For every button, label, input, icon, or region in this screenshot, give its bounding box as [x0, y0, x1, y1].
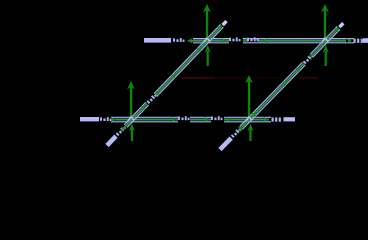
spin arrow S1 at node A: [203, 4, 211, 39]
arrowheads: [187, 38, 193, 43]
wire: top chain double line: [144, 37, 368, 43]
node D (bottom-right site): [245, 116, 253, 121]
spin arrow S2 at node B: [321, 4, 329, 39]
short arrow under node D: [248, 124, 254, 142]
wire: diagonal bond 2: [218, 21, 345, 151]
solid tube lower end: [105, 135, 117, 148]
short arrow under node C: [129, 124, 135, 142]
node C (bottom-left site): [127, 116, 135, 121]
bond label specks mid chain: [229, 37, 241, 41]
spin arrow S4 at node D: [245, 75, 253, 119]
three dots right end: [354, 39, 363, 43]
wire: diagonal bond 1: [105, 19, 228, 147]
node A (top-left site): [203, 37, 211, 42]
tip: [221, 20, 227, 26]
solid bar left end: [144, 38, 171, 43]
green arrow shaft segments: [189, 40, 346, 42]
node B (top-right site): [321, 37, 329, 42]
wire: bottom chain double line: [80, 116, 295, 122]
short arrow under node A: [205, 45, 211, 66]
faint red horizontal line (unit cell boundary): [181, 77, 318, 78]
solid bar right end: [363, 38, 368, 43]
short arrow under node B: [323, 45, 329, 66]
spin arrow S3 at node C: [127, 81, 135, 119]
label specks after bar: [173, 38, 185, 42]
double line segments: [193, 39, 354, 43]
